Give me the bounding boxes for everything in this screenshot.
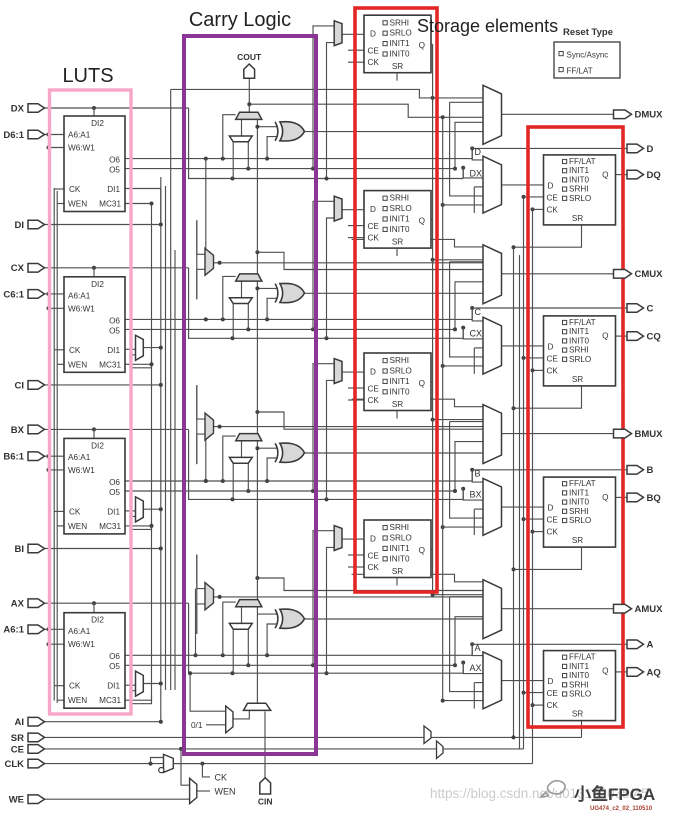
svg-text:DI2: DI2 (91, 616, 104, 625)
mux carry DI select D (O5/DX) (229, 136, 252, 142)
output pin DMUX (614, 110, 664, 121)
wire white mux B inputs (232, 463, 234, 499)
svg-text:A: A (647, 640, 654, 651)
port CIN (260, 778, 271, 794)
input pin CLK (4, 759, 44, 770)
svg-text:INIT0: INIT0 (390, 50, 410, 59)
svg-text:Q: Q (602, 171, 608, 180)
wire MC31 shift-chain rail (151, 204, 153, 365)
input pin CX (11, 263, 45, 274)
svg-text:LUTS: LUTS (62, 65, 113, 87)
wire O5 net of LUT B (125, 490, 455, 492)
svg-text:INIT1: INIT1 (569, 662, 589, 671)
svg-text:SR: SR (572, 710, 583, 719)
svg-text:SR: SR (392, 238, 403, 247)
svg-text:D: D (548, 342, 554, 351)
wire F7BMUX output (214, 262, 484, 264)
wire channel rail 3 (165, 186, 167, 690)
svg-text:CE: CE (547, 354, 559, 363)
svg-text:INIT1: INIT1 (390, 39, 410, 48)
svg-text:SRHI: SRHI (569, 680, 589, 689)
wire MUXCY A DI input from 0/1 mux (241, 607, 243, 624)
wire SR rail junction (512, 735, 516, 739)
input pin CI (15, 380, 45, 391)
mux CIN/AX carry source select (244, 703, 271, 710)
svg-text:DI1: DI1 (107, 185, 120, 194)
annotation box Carry Logic (purple) (184, 36, 316, 754)
wire SR into FF D (514, 225, 582, 247)
svg-text:MC31: MC31 (99, 360, 121, 369)
wire carry chain branch to AMUX (257, 578, 483, 591)
svg-text:SR: SR (392, 62, 403, 71)
wire MC31 of LUT C (125, 363, 152, 365)
wire rail storage column A (432, 44, 434, 595)
svg-text:AMUX: AMUX (635, 604, 664, 615)
wire extra input stubs of D output muxes (443, 204, 483, 206)
input pin BI (15, 544, 45, 555)
svg-text:SRLO: SRLO (390, 367, 412, 376)
wire SR into FF B (514, 547, 582, 569)
svg-text:A6:A1: A6:A1 (68, 291, 91, 300)
svg-text:SRLO: SRLO (569, 516, 591, 525)
wire MUXCY B DI input from 0/1 mux (241, 441, 243, 458)
wire MC31 of LUT B (125, 525, 152, 527)
wire carry chain COUT segment (248, 78, 250, 112)
svg-text:D: D (647, 144, 654, 155)
wire CQ output (616, 335, 628, 337)
svg-text:CK: CK (69, 185, 81, 194)
svg-text:O5: O5 (109, 488, 120, 497)
wire DQ output (616, 174, 628, 176)
wire DI input net (45, 224, 161, 226)
wire F7BMUX input elbows (197, 220, 205, 254)
wire XOR output of stage B (304, 452, 483, 454)
svg-text:Storage elements: Storage elements (417, 16, 558, 36)
wire B6:1 input bus (45, 455, 65, 457)
wire DI1 write-data of LUT C (125, 348, 136, 350)
input pin AI (15, 717, 45, 728)
mux F7BMUX (205, 248, 214, 275)
mux SR select (424, 726, 431, 744)
wire O5 net of LUT A (125, 664, 455, 666)
wire SR into FF A (581, 721, 583, 738)
mux input select for C2 FF (334, 196, 342, 221)
svg-text:CIN: CIN (258, 797, 273, 807)
svg-text:FF/LAT: FF/LAT (569, 318, 596, 327)
flip-flop/latch C FF/LAT (FF/LAT storage element) (544, 316, 616, 386)
svg-text:CI: CI (15, 380, 25, 391)
svg-text:DI: DI (15, 220, 25, 231)
svg-text:SRLO: SRLO (569, 194, 591, 203)
mux DOUTMUX (output mux) (483, 85, 502, 144)
wire CX input net (45, 267, 95, 269)
wire DI1 write-data of LUT B (125, 510, 136, 512)
svg-text:CK: CK (368, 396, 380, 405)
svg-text:FF/LAT: FF/LAT (567, 67, 593, 76)
wire A2 FF input and output (342, 538, 364, 540)
mux MUXCY C (carry mux) (236, 274, 262, 281)
mux carry DI select A (O5/AX) (229, 623, 252, 629)
wire C2 FF input and output (342, 209, 364, 211)
svg-text:C: C (475, 307, 482, 317)
svg-text:SR: SR (572, 214, 583, 223)
svg-text:INIT0: INIT0 (569, 498, 589, 507)
input pin C6:1 (3, 289, 44, 300)
flip-flop D2 FF (second storage element) (364, 15, 431, 81)
svg-text:WEN: WEN (215, 787, 236, 797)
svg-text:FF/LAT: FF/LAT (569, 479, 596, 488)
wire CI input net (45, 384, 161, 386)
svg-text:WE: WE (9, 795, 24, 806)
output pin B (627, 465, 654, 476)
wire O6 A to F7AMUX (195, 589, 197, 656)
wire channel rail 4 (170, 89, 172, 690)
wire bypass into B output mux (352, 399, 483, 407)
wire rail storage column B (442, 117, 444, 700)
wire WEN net label (197, 790, 210, 792)
svg-text:小鱼FPGA: 小鱼FPGA (574, 784, 655, 804)
mux input select for A2 FF (334, 526, 342, 551)
mux WE to WEN (190, 778, 197, 803)
mux CFFMUX (FF input mux) (483, 317, 502, 374)
svg-text:SRLO: SRLO (569, 355, 591, 364)
wire carry chain branch to DMUX (249, 104, 483, 117)
output pin BMUX (614, 429, 664, 440)
svg-text:CK: CK (368, 563, 380, 572)
input pin DI (15, 220, 45, 231)
svg-text:DI1: DI1 (107, 682, 120, 691)
input pin WE (9, 795, 45, 806)
mux MUXCY A (carry mux) (236, 600, 262, 607)
mux carry DI select C (O5/CX) (229, 298, 252, 304)
svg-text:BX: BX (11, 425, 25, 436)
svg-text:D: D (548, 504, 554, 513)
wire A FF input mux output to FF (502, 680, 544, 682)
wire DI data rail (160, 177, 162, 722)
LUT DLUT (A6LUT function generator) (64, 116, 125, 212)
output pin AQ (627, 667, 661, 678)
svg-text:SRLO: SRLO (569, 690, 591, 699)
svg-text:DI2: DI2 (91, 280, 104, 289)
mux DI1 write-data mux C (136, 335, 144, 360)
annotation box FF/LAT column (red) (528, 127, 623, 727)
svg-text:D: D (548, 677, 554, 686)
svg-text:SRLO: SRLO (390, 534, 412, 543)
svg-text:CK: CK (69, 507, 81, 516)
svg-text:Sync/Async: Sync/Async (567, 51, 609, 60)
wire feeds to D2 flip-flop input mux (313, 26, 334, 169)
wire carry chain branch to BMUX (257, 412, 483, 429)
svg-text:CE: CE (368, 47, 380, 56)
input pin SR (11, 733, 45, 744)
wire CE rail right column (523, 197, 525, 749)
svg-text:A6:A1: A6:A1 (68, 131, 91, 140)
svg-text:O6: O6 (109, 316, 120, 325)
svg-text:BI: BI (15, 544, 25, 555)
svg-text:D: D (370, 205, 376, 214)
mux DI1 write-data mux B (136, 497, 144, 522)
svg-text:SR: SR (572, 375, 583, 384)
mux F8MUX (205, 413, 214, 440)
wire B2 FF input and output (342, 371, 364, 373)
wire B FF input mux output to FF (502, 506, 544, 508)
wire feeds to C2 flip-flop input mux (313, 201, 334, 329)
svg-text:CE: CE (11, 744, 24, 755)
svg-text:INIT0: INIT0 (390, 387, 410, 396)
svg-text:BMUX: BMUX (635, 429, 664, 440)
wire CIN riser (264, 711, 266, 778)
svg-text:O5: O5 (109, 662, 120, 671)
svg-text:Q: Q (602, 493, 608, 502)
wire C output mux to CMUX pin (502, 273, 614, 275)
wire CLK into polarity mux (149, 762, 153, 766)
svg-text:INIT0: INIT0 (569, 671, 589, 680)
wire BQ output (616, 496, 628, 498)
svg-text:SR: SR (392, 400, 403, 409)
svg-text:AX: AX (470, 663, 482, 673)
svg-text:D: D (370, 30, 376, 39)
wire carry chain A to B (256, 441, 258, 600)
svg-text:O5: O5 (109, 326, 120, 335)
wire F8MUX input elbows (197, 385, 205, 419)
mux DI1 write-data mux A (136, 671, 144, 696)
svg-text:D6:1: D6:1 (3, 130, 24, 141)
svg-text:FF/LAT: FF/LAT (569, 653, 596, 662)
flip-flop C2 FF (second storage element) (364, 191, 431, 257)
wire DI1 write-data of LUT A (125, 684, 136, 686)
svg-text:CK: CK (69, 682, 81, 691)
svg-text:D: D (370, 535, 376, 544)
input pin B6:1 (3, 452, 44, 463)
wire O6 net of LUT B (125, 480, 472, 482)
mux carry-init 0/1 select (226, 706, 233, 733)
wire white mux C inputs (232, 304, 234, 339)
output pin BQ (627, 493, 661, 504)
svg-text:DI1: DI1 (107, 507, 120, 516)
wire CE gate into WE mux (181, 749, 190, 785)
wire AX input net (45, 602, 95, 604)
svg-text:D: D (548, 181, 554, 190)
wire CE/CK into FF D (524, 196, 544, 198)
wire SR net (45, 736, 582, 738)
svg-text:D: D (370, 368, 376, 377)
svg-text:SRHI: SRHI (390, 194, 410, 203)
svg-text:CE: CE (368, 222, 380, 231)
svg-text:Reset Type: Reset Type (563, 27, 613, 38)
svg-text:DX: DX (470, 169, 483, 179)
svg-text:SRHI: SRHI (569, 507, 589, 516)
LUT ALUT (A6LUT function generator) (64, 613, 125, 709)
mux MUXCY B (carry mux) (236, 434, 262, 441)
mux CE select (437, 741, 444, 759)
LUT CLUT (A6LUT function generator) (64, 277, 125, 373)
svg-text:CE: CE (547, 689, 559, 698)
svg-text:INIT1: INIT1 (569, 488, 589, 497)
svg-text:DMUX: DMUX (635, 110, 664, 121)
svg-text:O6: O6 (109, 156, 120, 165)
wire D FF input mux output to FF (502, 184, 544, 186)
svg-text:Q: Q (419, 41, 425, 50)
wire channel rail 5 (174, 250, 176, 690)
mux BFFMUX (FF input mux) (483, 478, 502, 535)
logo fish doodle (541, 781, 565, 797)
wire WE net (45, 798, 190, 800)
wire D6:1 input bus (45, 134, 65, 136)
svg-text:SR: SR (572, 536, 583, 545)
svg-text:CLK: CLK (4, 759, 24, 770)
annotation box LUTS (pink) (50, 90, 132, 714)
svg-text:CE: CE (547, 193, 559, 202)
svg-text:CK: CK (215, 772, 228, 782)
svg-text:A6:A1: A6:A1 (68, 453, 91, 462)
wire AI input net (45, 721, 161, 723)
wire carry chain init to A (256, 607, 258, 703)
svg-text:C6:1: C6:1 (3, 289, 24, 300)
mux AFFMUX (FF input mux) (483, 652, 502, 709)
svg-text:SR: SR (11, 733, 24, 744)
flip-flop B2 FF (second storage element) (364, 353, 431, 419)
svg-text:CK: CK (368, 58, 380, 67)
svg-text:WEN: WEN (68, 200, 87, 209)
wire CK rail right column (532, 209, 534, 763)
svg-text:C: C (647, 303, 654, 314)
svg-text:CE: CE (368, 385, 380, 394)
wire A6:1 input bus (45, 628, 65, 630)
wire F8MUX output (214, 426, 484, 428)
svg-text:INIT1: INIT1 (390, 544, 410, 553)
wire feeds to B2 flip-flop input mux (313, 364, 334, 491)
svg-text:SRLO: SRLO (390, 29, 412, 38)
wire D output mux to DMUX pin (502, 113, 614, 115)
svg-text:W6:W1: W6:W1 (68, 466, 95, 475)
svg-text:O6: O6 (109, 652, 120, 661)
wire O5 net of LUT D (125, 168, 455, 170)
wire O6 net of LUT A (125, 654, 472, 656)
mux input select for D2 FF (334, 21, 342, 46)
svg-text:CE: CE (368, 552, 380, 561)
svg-text:INIT1: INIT1 (390, 377, 410, 386)
svg-text:DQ: DQ (647, 170, 661, 181)
input pin D6:1 (3, 130, 44, 141)
wire white mux A inputs (232, 629, 234, 673)
svg-text:AI: AI (15, 717, 25, 728)
wire B output mux to BMUX pin (502, 433, 614, 435)
wire C6:1 input bus (45, 293, 65, 295)
flip-flop A2 FF (second storage element) (364, 520, 431, 586)
wire MC31 of LUT A (125, 699, 152, 701)
svg-text:SRLO: SRLO (390, 204, 412, 213)
svg-text:CMUX: CMUX (635, 269, 664, 280)
mux CLK polarity (with inverter bubble) (164, 754, 174, 772)
annotation box storage column (red) (355, 8, 437, 592)
flip-flop/latch D FF/LAT (FF/LAT storage element) (544, 155, 616, 225)
svg-text:Q: Q (602, 666, 608, 675)
input pin A6:1 (3, 625, 44, 636)
svg-text:INIT0: INIT0 (390, 554, 410, 563)
svg-text:Q: Q (602, 332, 608, 341)
wire O5 net of LUT C (125, 328, 455, 330)
wire XOR output of stage C (304, 292, 483, 294)
wire F7AMUX output (214, 596, 484, 598)
XOR carry gate XORCY C (275, 283, 304, 302)
wire SR rail right column (513, 247, 515, 737)
mux MUXCY D (carry mux) (236, 112, 262, 119)
output pin AMUX (614, 604, 664, 615)
mux carry DI select B (O5/BX) (229, 457, 252, 463)
wire BX input net (45, 428, 95, 430)
svg-text:CQ: CQ (647, 332, 661, 343)
svg-text:CK: CK (69, 346, 81, 355)
svg-text:MC31: MC31 (99, 696, 121, 705)
svg-text:A6:1: A6:1 (3, 625, 24, 636)
svg-text:Q: Q (419, 217, 425, 226)
port COUT (244, 64, 255, 78)
svg-text:CX: CX (11, 263, 25, 274)
flip-flop/latch B FF/LAT (FF/LAT storage element) (544, 477, 616, 547)
output pin D (627, 144, 654, 155)
wire AQ output (616, 671, 628, 673)
output pin CMUX (614, 269, 664, 280)
XOR carry gate XORCY B (275, 443, 304, 462)
wire XOR output of stage A (304, 618, 483, 620)
svg-text:O6: O6 (109, 478, 120, 487)
svg-text:COUT: COUT (237, 52, 262, 62)
svg-text:BQ: BQ (647, 493, 661, 504)
wire O6 net of LUT C (125, 318, 472, 320)
mux input select for B2 FF (334, 359, 342, 384)
svg-text:DI2: DI2 (91, 441, 104, 450)
mux DFFMUX (FF input mux) (483, 156, 502, 213)
wire CE/CK into FF A (524, 692, 544, 694)
svg-text:INIT0: INIT0 (569, 336, 589, 345)
svg-text:O5: O5 (109, 166, 120, 175)
wire extra input stubs of A output muxes (443, 700, 483, 702)
wire rail aux right column (519, 255, 521, 749)
svg-text:W6:W1: W6:W1 (68, 144, 95, 153)
wire carry chain C to D (256, 119, 258, 274)
wire MUXCY D DI input from 0/1 mux (241, 119, 243, 136)
svg-text:B: B (475, 469, 481, 479)
input pin CE (11, 744, 45, 755)
wire O6 D to F7BMUX (205, 159, 207, 255)
wire D2 FF input and output (342, 33, 364, 35)
output pin CQ (627, 332, 661, 343)
XOR carry gate XORCY D (275, 122, 304, 141)
wire bypass into A output mux (352, 574, 483, 582)
input pin BX (11, 425, 45, 436)
wire BI input net (45, 548, 161, 550)
wire CE net (45, 748, 524, 750)
svg-text:INIT0: INIT0 (390, 225, 410, 234)
wire bypass into D output mux (171, 89, 483, 98)
wire DX input net (45, 107, 95, 109)
svg-text:B6:1: B6:1 (3, 452, 24, 463)
svg-text:INIT1: INIT1 (569, 327, 589, 336)
output pin A (627, 640, 654, 651)
wire bypass into C output mux (352, 239, 483, 247)
wire DI1 write-data of LUT D (125, 189, 161, 225)
svg-text:CK: CK (547, 528, 559, 537)
svg-text:SRHI: SRHI (390, 523, 410, 532)
wire CE/CK into FF B (524, 518, 544, 520)
svg-text:MC31: MC31 (99, 522, 121, 531)
svg-text:B: B (647, 465, 654, 476)
svg-text:DI1: DI1 (107, 346, 120, 355)
svg-text:INIT0: INIT0 (569, 175, 589, 184)
wire XOR output of stage D (304, 131, 483, 133)
svg-text:DI2: DI2 (91, 119, 104, 128)
svg-text:0/1: 0/1 (191, 721, 203, 730)
